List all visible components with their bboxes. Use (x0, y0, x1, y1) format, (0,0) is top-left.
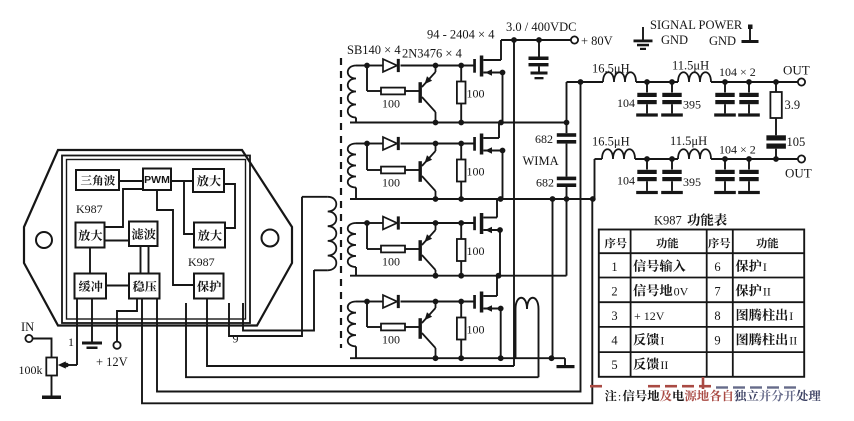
node gate resistor top channel 3 (458, 220, 464, 226)
svg-text:II: II (660, 358, 668, 372)
node gate resistor top channel 4 (458, 299, 464, 305)
wire 放大 top-right feedback loop (224, 184, 235, 228)
wire MOSFET V3 source (499, 230, 501, 276)
node Q2 bottom junction (433, 196, 439, 202)
svg-text:100: 100 (382, 255, 400, 269)
ground IN network (42, 396, 61, 400)
svg-text:104: 104 (617, 96, 635, 110)
table header 功能 right (756, 238, 778, 249)
svg-text:II: II (763, 285, 771, 299)
node +80V feed (511, 37, 517, 43)
svg-text:104: 104 (617, 174, 635, 188)
node gate resistor bottom channel 4 (458, 355, 464, 361)
table header 功能 left (656, 238, 678, 249)
block 缓冲 (buffer) (75, 274, 107, 299)
table row 5 function (633, 357, 668, 372)
mounting hole right (262, 230, 279, 247)
node rail4 ground junction (549, 355, 555, 361)
transistor Q2 (2N3476) (419, 144, 436, 200)
svg-text:+ 12V: + 12V (96, 355, 128, 369)
wire base drive channel 3 (367, 223, 419, 249)
node gate resistor top channel 1 (458, 63, 464, 69)
capacitor 682 (lower, WIMA) (557, 177, 576, 187)
svg-text:K987: K987 (76, 202, 103, 216)
wire ground link vertical (552, 199, 554, 358)
module board border outer (62, 156, 250, 324)
capacitor 104x2 a (bottom chain) (724, 159, 726, 170)
node filter cap tap (536, 37, 542, 43)
svg-text:4: 4 (611, 334, 618, 348)
svg-text:16.5μH: 16.5μH (592, 62, 630, 76)
wire IN to potentiometer (33, 339, 52, 358)
node rail A junction (498, 120, 504, 126)
wire pin 1 (signal in) (76, 299, 78, 366)
resistor 100 (gate-source) channel 1 (457, 66, 466, 123)
table header 序号 left (605, 238, 627, 249)
resistor 100 (gate-source) channel 3 (457, 223, 466, 276)
node rail2 junction b (550, 196, 556, 202)
wire pin 9 (totem pole out II) to primary bottom (243, 270, 314, 331)
table K987 function table border (599, 230, 804, 377)
node winding4-top (364, 299, 370, 305)
transformer T1 secondary winding 2 (348, 144, 367, 200)
node cap 104 bottom-chain (644, 156, 650, 162)
table row 6 function (736, 259, 767, 274)
wire 放大 mid-left to 滤波 (105, 240, 130, 242)
wire MOSFET V2 drain (498, 123, 500, 139)
block 三角波 (triangle wave) (76, 170, 119, 190)
svg-text:2: 2 (611, 285, 617, 299)
resistor 100 (base) channel 3 (381, 246, 405, 253)
wire PWM to 放大 top-right (171, 180, 193, 182)
svg-text:100k: 100k (19, 363, 43, 377)
node gate resistor bottom channel 3 (458, 273, 464, 279)
svg-text:395: 395 (683, 175, 701, 189)
terminal +12V (113, 342, 120, 349)
resistor 100 (gate-source) channel 2 (457, 144, 466, 200)
svg-text:11.5μH: 11.5μH (670, 134, 707, 148)
svg-text:6: 6 (714, 260, 720, 274)
wire 缓冲 to 稳压 (106, 285, 129, 287)
svg-text:0V: 0V (674, 285, 689, 299)
svg-text:9: 9 (233, 332, 239, 346)
svg-text:IN: IN (21, 320, 34, 334)
wire MOSFET V4 source (500, 309, 502, 359)
resistor 100 (gate-source) channel 4 (457, 302, 466, 359)
svg-text:I: I (789, 309, 793, 323)
inductor L3 16.5uH (602, 149, 635, 159)
node winding1-top (364, 63, 370, 69)
node MOSFET V4 source (498, 306, 504, 312)
svg-text:OUT: OUT (783, 63, 810, 78)
block 放大 mid-right (amplifier) (194, 223, 225, 248)
block 滤波 (filter) (129, 222, 158, 247)
node cap 104x2 b top-chain (746, 79, 752, 85)
terminal IN (25, 335, 32, 342)
transformer T1 secondary winding 1 (348, 66, 367, 123)
node cap 104 top-chain (644, 79, 650, 85)
block 放大 mid-left (amplifier) (76, 223, 105, 248)
wire 滤波 to 稳压 b (148, 246, 150, 274)
table row 4 function (633, 333, 664, 348)
capacitor 395 (top chain) (671, 82, 673, 93)
power ground symbol (bottom) (557, 358, 575, 368)
MOSFET V2 (94-2404) (473, 134, 502, 155)
wire MOSFET V1 source (502, 73, 504, 123)
node rail2 junction c (564, 196, 570, 202)
wire PWM to 放大 mid-left (105, 189, 144, 227)
wire 三角波 to PWM (119, 180, 143, 182)
node rail2 junction d (590, 196, 596, 202)
svg-text:94 - 2404 × 4: 94 - 2404 × 4 (427, 28, 495, 42)
table row 3 function (634, 309, 665, 323)
inductor L2 11.5uH (678, 72, 711, 82)
wire MOSFET V3 drain (496, 199, 498, 218)
node cap 395 top-chain (669, 79, 675, 85)
wire MOSFET V2 source (502, 151, 504, 200)
svg-text:105: 105 (787, 135, 806, 149)
node riser rail A (564, 120, 570, 126)
mounting hole left (36, 232, 52, 248)
svg-text:SB140 × 4: SB140 × 4 (347, 43, 401, 57)
wire pin 6 (protection I) (186, 303, 539, 377)
node gate resistor bottom channel 2 (458, 196, 464, 202)
svg-text:3: 3 (611, 309, 617, 323)
table row 7 function (736, 284, 771, 299)
node Q4 bottom junction (433, 355, 439, 361)
table row 2 function (633, 284, 688, 299)
svg-text:9: 9 (714, 334, 720, 348)
node rail2 junction a (498, 196, 504, 202)
inductor L4 11.5uH (678, 149, 711, 159)
node winding3-top (364, 220, 370, 226)
capacitor 3.0uF/400VDC (529, 40, 549, 79)
capacitor 682 (upper, WIMA) (557, 133, 576, 143)
wire output chain A (567, 81, 798, 83)
svg-text:SIGNAL POWER: SIGNAL POWER (650, 18, 743, 32)
wire +80V rail (501, 39, 571, 41)
node gate resistor bottom channel 1 (458, 120, 464, 126)
wire base drive channel 2 (367, 144, 419, 171)
capacitor 105 (766, 135, 786, 159)
svg-text:5: 5 (611, 358, 617, 372)
capacitor 104x2 b (top chain) (748, 82, 750, 93)
node Q2 top junction (433, 141, 439, 147)
wire pin 3 (+12V) (117, 299, 137, 342)
note 注:信号地及电源地各自独立并分开处理 (605, 390, 821, 404)
transistor Q4 (2N3476) (419, 302, 436, 359)
table header 序号 right (708, 238, 730, 249)
wire potentiometer to ground (51, 376, 53, 396)
svg-text:+ 12V: + 12V (634, 309, 665, 323)
node Q3 top junction (433, 220, 439, 226)
transformer core (340, 58, 342, 348)
table row 1 function (633, 259, 685, 272)
wire pin 2 to signal ground (91, 299, 93, 342)
terminal OUT (bottom) (798, 155, 805, 162)
capacitor 395 (bottom chain) (671, 159, 673, 170)
block 放大 top-right (amplifier) (193, 169, 224, 192)
svg-text:3.0 / 400VDC: 3.0 / 400VDC (506, 20, 577, 34)
svg-text:104 × 2: 104 × 2 (719, 65, 756, 79)
svg-text:16.5μH: 16.5μH (592, 135, 630, 149)
block PWM (143, 169, 171, 191)
wire MOSFET V1 drain (500, 40, 502, 60)
table row 9 function (737, 333, 797, 348)
svg-text:100: 100 (382, 176, 400, 190)
svg-text:K987: K987 (188, 255, 215, 269)
signal ground pin 2 (82, 342, 102, 350)
node wiper junction (64, 363, 69, 368)
MOSFET V4 (94-2404) (473, 292, 501, 313)
node zobel tap bottom (773, 156, 779, 162)
block 保护 (protection) (194, 274, 224, 299)
MOSFET V1 (94-2404) (473, 56, 502, 77)
svg-text:GND: GND (661, 33, 688, 47)
node Q4 top junction (433, 299, 439, 305)
wire PWM branch to 放大 mid-right (184, 181, 194, 234)
svg-text:3.9: 3.9 (785, 98, 801, 112)
wire MOSFET V4 drain (496, 276, 498, 296)
node zobel tap top (773, 79, 779, 85)
node Q1 top junction (433, 63, 439, 69)
svg-text:PWM: PWM (144, 174, 170, 186)
svg-text:2N3476 × 4: 2N3476 × 4 (402, 47, 463, 61)
wire output rail A (channel 1 return) (350, 122, 567, 124)
svg-text:8: 8 (714, 309, 720, 323)
node rail4 source junction (498, 355, 504, 361)
transformer T1 secondary winding 4 (348, 302, 367, 359)
wire gate line channel 2 (367, 143, 474, 145)
terminal +80V (571, 36, 578, 43)
svg-text:682: 682 (535, 132, 553, 146)
svg-text:100: 100 (467, 87, 485, 101)
wire pin 7 (protection II) (207, 299, 514, 367)
block 稳压 (regulator) (129, 274, 160, 299)
wire base drive channel 4 (367, 302, 419, 328)
svg-text:100: 100 (467, 244, 485, 258)
wire gate line channel 3 (367, 222, 474, 224)
svg-text:+ 80V: + 80V (581, 34, 613, 48)
node cap 395 bottom-chain (669, 156, 675, 162)
capacitor 104 (bottom chain) (646, 159, 648, 170)
svg-text:OUT: OUT (785, 166, 812, 181)
svg-text:395: 395 (683, 98, 701, 112)
wire 放大 mid-left to 缓冲 (89, 248, 91, 274)
node MOSFET V2 source (500, 148, 506, 154)
power ground symbol (top) (742, 25, 759, 44)
wire pin 8 (totem pole out I) to primary top (229, 197, 302, 336)
node winding2-top (364, 141, 370, 147)
diode D1 (SB140) (383, 59, 400, 72)
wire hop over to channel-4 rail (516, 298, 539, 377)
watermark red dashes (590, 377, 711, 389)
wire PWM to 保护 (157, 190, 194, 285)
watermark slate dashes (716, 386, 796, 388)
resistor 100 (base) channel 4 (381, 324, 405, 331)
node Q1 bottom junction (433, 120, 439, 126)
svg-text:104 × 2: 104 × 2 (719, 143, 756, 157)
node rail B junction (496, 273, 502, 279)
svg-text:682: 682 (536, 176, 554, 190)
svg-text:100: 100 (382, 97, 400, 111)
diode D2 (SB140) (383, 137, 400, 150)
transformer T1 secondary winding 3 (348, 223, 367, 276)
diode D4 (SB140) (383, 295, 400, 308)
wire pin 5 (feedback II) (157, 82, 581, 392)
node cap 104x2 a bottom-chain (722, 156, 728, 162)
capacitor 104x2 b (bottom chain) (748, 159, 750, 170)
svg-text:II: II (789, 334, 797, 348)
transformer T1 primary winding (302, 197, 336, 270)
node Q3 bottom junction (433, 273, 439, 279)
resistor 100 (base) channel 2 (381, 167, 405, 174)
node MOSFET V3 source (497, 227, 503, 233)
wire 滤波 to 稳压 a (140, 246, 142, 274)
potentiometer 100k (46, 358, 77, 376)
svg-text:100: 100 (467, 323, 485, 337)
wire base drive channel 1 (367, 66, 419, 92)
node feedback tap top chain (578, 79, 584, 85)
terminal OUT (top) (798, 78, 805, 85)
svg-text:I: I (660, 334, 664, 348)
node cap 104x2 b bottom-chain (746, 156, 752, 162)
table title K987 功能表 (654, 213, 727, 227)
transistor Q1 (2N3476) (419, 66, 436, 123)
wire output chain B (595, 159, 798, 199)
module board border inner (67, 160, 246, 320)
wire channel 4 source rail (350, 357, 565, 359)
capacitor 104 (top chain) (646, 82, 648, 93)
diode D3 (SB140) (383, 216, 400, 229)
node gate resistor top channel 2 (458, 141, 464, 147)
svg-text:WIMA: WIMA (523, 154, 559, 168)
svg-text:1: 1 (68, 335, 74, 349)
svg-text:K987: K987 (654, 214, 682, 228)
svg-text:100: 100 (382, 333, 400, 347)
svg-text::: : (618, 390, 621, 404)
svg-text:7: 7 (714, 285, 720, 299)
resistor 3.9 (770, 82, 781, 135)
svg-text:100: 100 (467, 165, 485, 179)
svg-text:GND: GND (709, 34, 736, 48)
svg-text:11.5μH: 11.5μH (672, 59, 709, 73)
transistor Q3 (2N3476) (419, 223, 436, 276)
capacitor 104x2 a (top chain) (724, 82, 726, 93)
wire output rail B (channel 3 return) (350, 199, 567, 276)
svg-text:1: 1 (611, 260, 617, 274)
module K987 package outline (24, 150, 292, 326)
inductor L1 16.5uH (603, 72, 636, 82)
wire rail channel 2 return (ground bus upper) (350, 198, 593, 200)
signal ground symbol (634, 27, 653, 50)
wire gate line channel 1 (367, 65, 474, 67)
wire pin 4 (feedback I) (142, 199, 592, 403)
MOSFET V3 (94-2404) (473, 213, 500, 234)
wire gate line channel 4 (367, 301, 474, 303)
wire output A to filter riser (566, 82, 568, 199)
svg-text:I: I (763, 260, 767, 274)
table row 8 function (737, 308, 793, 323)
wire +80V distribution vertical (513, 40, 515, 366)
node MOSFET V1 source (500, 70, 506, 76)
resistor 100 (base) channel 1 (381, 88, 405, 95)
node cap 104x2 a top-chain (722, 79, 728, 85)
